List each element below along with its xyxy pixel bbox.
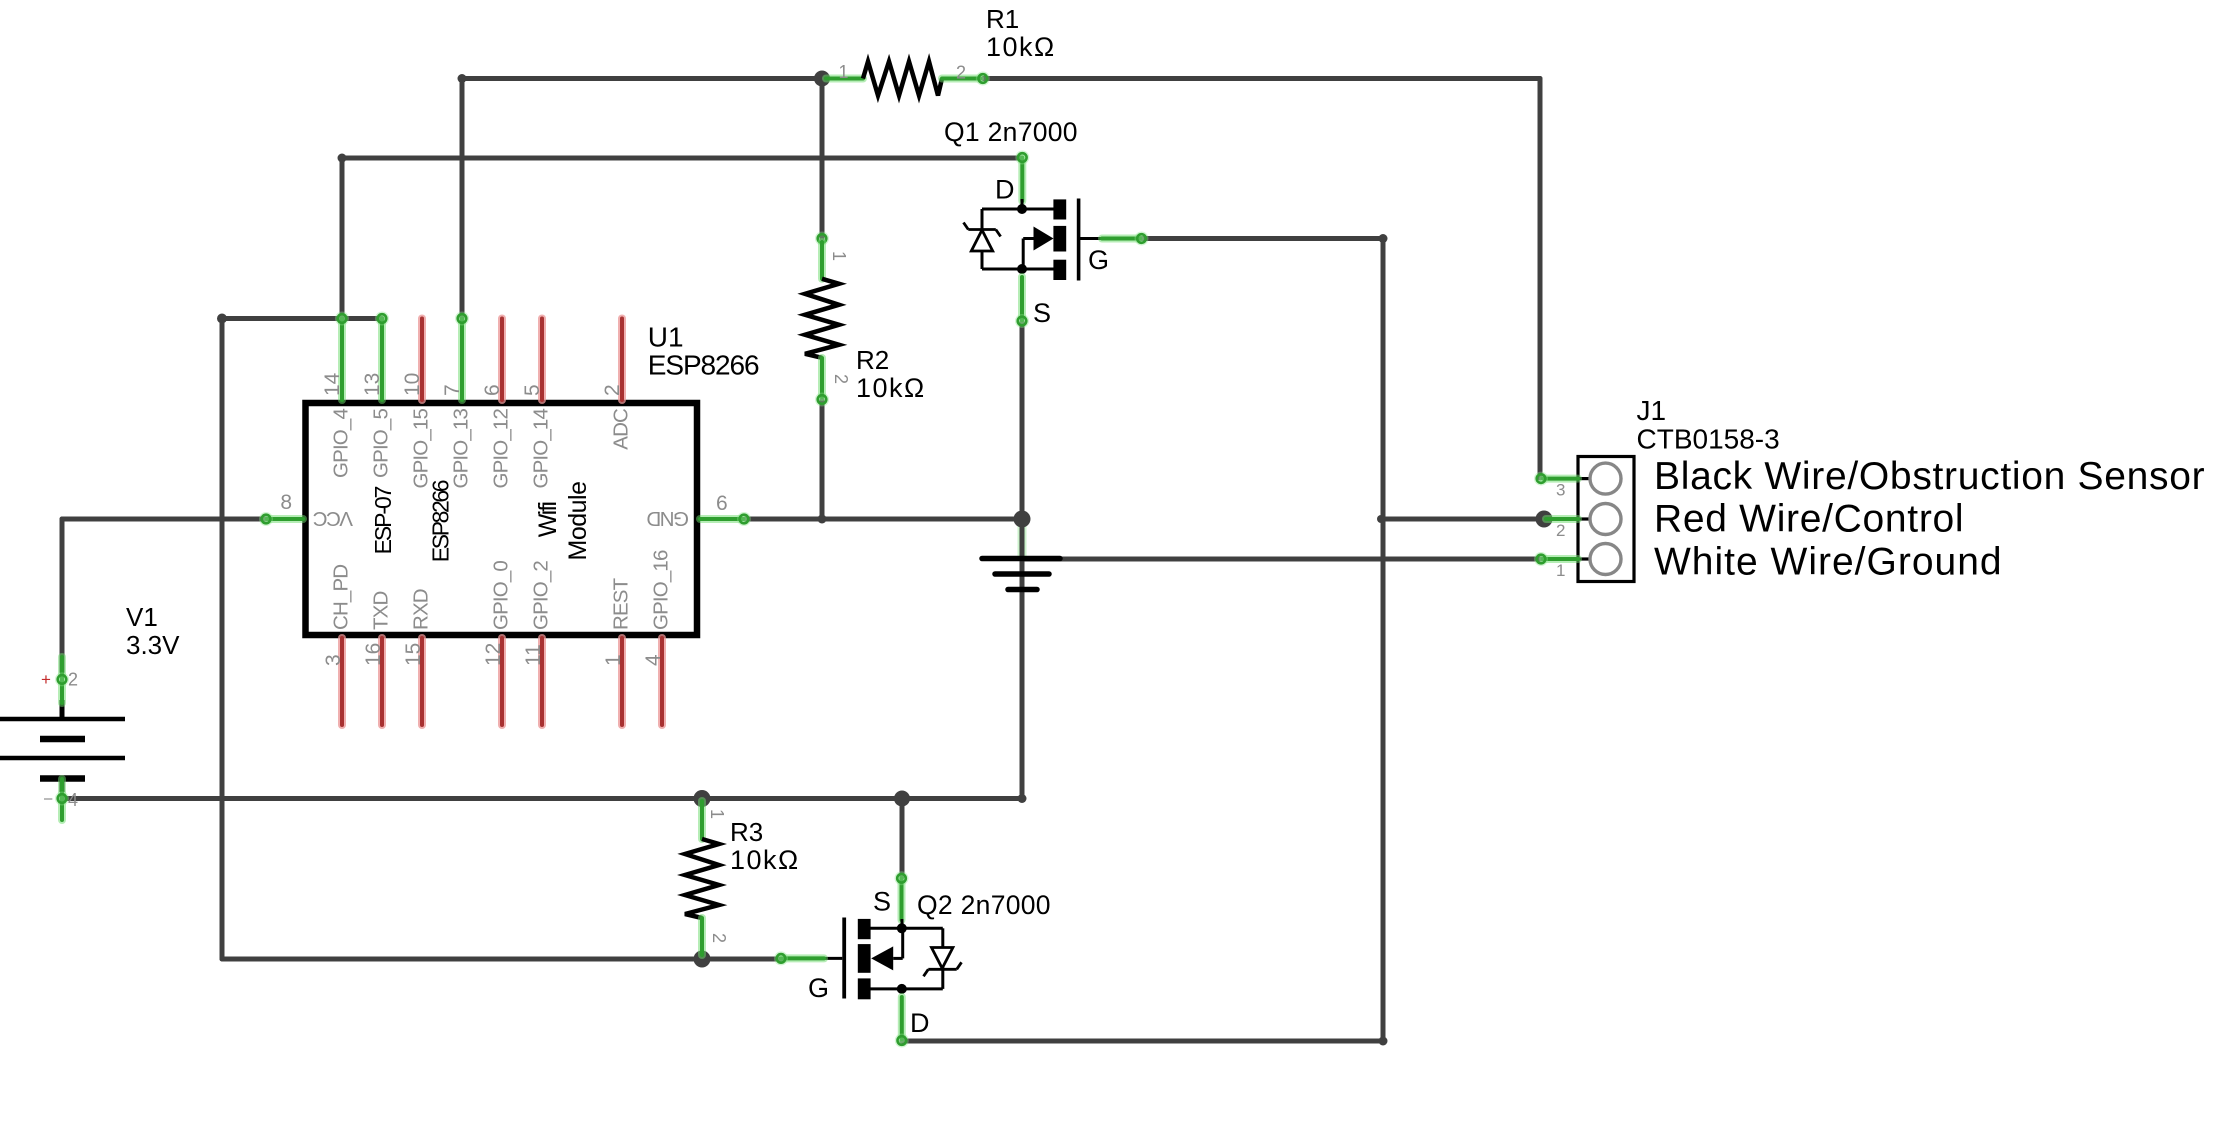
- wire: [222, 316, 382, 321]
- svg-text:GPIO_0: GPIO_0: [490, 561, 513, 630]
- ground: [982, 556, 1060, 562]
- svg-text:12: 12: [482, 643, 505, 666]
- svg-text:R2: R2: [856, 345, 889, 375]
- battery V1 plate 4: [40, 775, 85, 782]
- wire: [342, 156, 1021, 161]
- connector J1 pin 1 wire: [1543, 555, 1578, 563]
- junction: [1014, 511, 1031, 528]
- connector J1 pin 3 stub: [1578, 477, 1590, 480]
- svg-text:S: S: [873, 887, 891, 917]
- svg-text:GPIO_5: GPIO_5: [370, 409, 393, 478]
- wire: [1020, 322, 1025, 519]
- svg-text:+: +: [41, 670, 51, 689]
- transistor Q1: [1018, 158, 1026, 202]
- svg-text:2: 2: [831, 374, 851, 384]
- svg-text:CH_PD: CH_PD: [330, 565, 353, 630]
- svg-text:10kΩ: 10kΩ: [856, 373, 926, 403]
- svg-text:V1: V1: [126, 602, 158, 632]
- op-amp U1 body: [306, 403, 698, 635]
- connector J1 pin 3 wire: [1543, 475, 1578, 483]
- wire: [902, 1039, 1383, 1044]
- junction: [894, 791, 910, 807]
- svg-text:11: 11: [522, 644, 545, 666]
- wire: [222, 957, 781, 962]
- svg-text:GPIO_15: GPIO_15: [410, 409, 433, 489]
- svg-text:GPIO_2: GPIO_2: [530, 561, 553, 630]
- connector J1 pin 2 stub: [1578, 517, 1590, 520]
- junction: [1536, 511, 1553, 528]
- svg-text:2: 2: [956, 63, 966, 83]
- pin 7 GPIO_13: [458, 319, 466, 401]
- svg-text:CTB0158-3: CTB0158-3: [1637, 423, 1780, 454]
- wire: [60, 519, 65, 672]
- svg-text:REST: REST: [610, 577, 633, 630]
- svg-text:1: 1: [829, 251, 849, 261]
- svg-text:4: 4: [642, 654, 665, 666]
- pin 10 GPIO_15: [418, 319, 426, 401]
- svg-text:10: 10: [401, 373, 424, 396]
- pin 11 GPIO_2: [538, 638, 546, 725]
- svg-text:ADC: ADC: [610, 408, 633, 450]
- pin 4 GPIO_16: [658, 638, 666, 725]
- svg-text:Q2 2n7000: Q2 2n7000: [917, 890, 1051, 920]
- wire: [340, 158, 345, 318]
- svg-text:D: D: [995, 175, 1015, 205]
- svg-text:GPIO_4: GPIO_4: [330, 409, 353, 478]
- svg-text:Black Wire/Obstruction Sensor: Black Wire/Obstruction Sensor: [1654, 455, 2205, 498]
- svg-text:13: 13: [361, 373, 384, 396]
- battery V1 positive pin: [60, 700, 65, 719]
- svg-text:Wifi: Wifi: [534, 503, 562, 538]
- connector J1 pin 1 circle: [1590, 544, 1621, 575]
- connector J1 pin 3 circle: [1590, 463, 1621, 494]
- pin 15 RXD: [418, 638, 426, 725]
- battery V1 plate 2: [40, 736, 85, 743]
- pin 12 GPIO_0: [498, 638, 506, 725]
- resistor R3: [698, 801, 706, 839]
- svg-text:2: 2: [709, 933, 729, 943]
- node bend: [458, 74, 467, 83]
- battery V1 negative pin: [60, 779, 65, 793]
- wire: [460, 79, 465, 319]
- svg-text:ESP8266: ESP8266: [648, 350, 759, 381]
- wire: [462, 76, 822, 81]
- svg-text:10kΩ: 10kΩ: [986, 32, 1056, 62]
- svg-text:10kΩ: 10kΩ: [730, 845, 800, 875]
- node bend: [1377, 515, 1385, 523]
- svg-text:14: 14: [321, 372, 344, 396]
- svg-text:1: 1: [1556, 561, 1565, 580]
- svg-text:Module: Module: [564, 482, 592, 561]
- svg-text:U1: U1: [648, 322, 684, 353]
- svg-text:S: S: [1033, 298, 1051, 328]
- svg-text:TXD: TXD: [370, 592, 393, 630]
- node bend: [1379, 234, 1388, 243]
- connector J1 pin 2 circle: [1590, 504, 1621, 535]
- pin 5 GPIO_14: [538, 319, 546, 401]
- svg-text:GPIO_12: GPIO_12: [490, 409, 513, 489]
- node bend: [818, 515, 827, 524]
- svg-text:8: 8: [280, 491, 292, 514]
- junction: [694, 790, 711, 807]
- svg-text:3.3V: 3.3V: [126, 630, 180, 660]
- wire: [1022, 557, 1541, 562]
- wire: [1381, 239, 1386, 1042]
- node bend: [217, 314, 227, 324]
- wire: [1538, 79, 1543, 479]
- pin 16 TXD: [378, 638, 386, 725]
- svg-text:15: 15: [402, 643, 425, 666]
- svg-text:2: 2: [601, 384, 624, 396]
- pin 6 GPIO_12: [498, 319, 506, 401]
- node bend: [338, 154, 347, 163]
- resistor R1: [826, 75, 863, 83]
- connector J1 pin 1 stub: [1578, 557, 1590, 560]
- svg-text:GPIO_13: GPIO_13: [450, 409, 473, 489]
- wire: [1018, 519, 1027, 558]
- svg-text:–: –: [44, 790, 53, 807]
- svg-text:GPIO_14: GPIO_14: [530, 409, 553, 489]
- svg-text:RXD: RXD: [410, 589, 433, 630]
- svg-text:2: 2: [68, 670, 78, 690]
- svg-text:GND: GND: [647, 507, 689, 530]
- wire: [820, 400, 825, 519]
- pin 2 ADC: [618, 319, 626, 401]
- svg-text:ESP8266: ESP8266: [428, 480, 454, 562]
- svg-text:7: 7: [441, 384, 464, 396]
- svg-text:GPIO_16: GPIO_16: [650, 550, 673, 630]
- wire: [983, 76, 1540, 81]
- svg-text:4: 4: [68, 790, 78, 810]
- junction: [814, 71, 830, 87]
- svg-text:1: 1: [602, 654, 625, 666]
- junction: [694, 951, 711, 968]
- svg-text:ESP-07: ESP-07: [370, 486, 396, 554]
- svg-text:1: 1: [839, 62, 849, 82]
- pin 6 GND: [700, 515, 743, 523]
- wire: [62, 517, 266, 522]
- pin 3 CH_PD: [338, 638, 346, 725]
- svg-text:D: D: [910, 1008, 930, 1038]
- svg-text:6: 6: [481, 384, 504, 396]
- wire: [220, 319, 225, 960]
- svg-text:5: 5: [521, 384, 544, 396]
- svg-text:R3: R3: [730, 817, 763, 847]
- svg-text:Q1 2n7000: Q1 2n7000: [944, 117, 1078, 147]
- battery V1 plate 3: [0, 756, 125, 761]
- svg-text:3: 3: [1556, 481, 1565, 500]
- transistor Q2: [898, 878, 906, 920]
- svg-text:G: G: [808, 973, 829, 1003]
- wire: [62, 796, 1022, 801]
- svg-text:1: 1: [707, 809, 727, 819]
- pin 8 VCC: [267, 515, 303, 523]
- wire: [900, 799, 905, 878]
- pin 14 GPIO_4: [338, 319, 346, 401]
- svg-text:16: 16: [362, 643, 385, 666]
- svg-text:2: 2: [1556, 521, 1565, 540]
- pin 1 REST: [618, 638, 626, 725]
- svg-text:3: 3: [322, 654, 345, 666]
- wire: [1383, 517, 1544, 522]
- wire: [1141, 236, 1383, 241]
- pin 13 GPIO_5: [378, 319, 386, 401]
- svg-text:J1: J1: [1637, 395, 1667, 426]
- svg-text:6: 6: [716, 492, 728, 515]
- node bend: [1379, 1037, 1388, 1046]
- svg-text:Red Wire/Control: Red Wire/Control: [1654, 498, 1964, 541]
- svg-text:G: G: [1088, 245, 1109, 275]
- node bend: [1018, 794, 1027, 803]
- battery V1 plate 1: [0, 717, 125, 722]
- connector J1 body: [1578, 457, 1634, 582]
- svg-text:VCC: VCC: [313, 507, 353, 530]
- wire: [745, 517, 1022, 522]
- svg-text:R1: R1: [986, 4, 1019, 34]
- svg-text:White Wire/Ground: White Wire/Ground: [1654, 541, 2003, 584]
- resistor R2: [815, 232, 829, 246]
- wire: [820, 79, 825, 239]
- connector J1 pin 2 wire: [1546, 515, 1578, 523]
